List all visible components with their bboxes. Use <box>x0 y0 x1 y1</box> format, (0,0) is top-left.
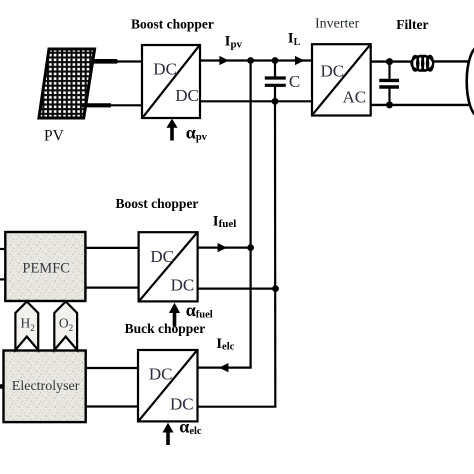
Electrolyser stack <box>4 351 86 423</box>
svg-text:Buck chopper: Buck chopper <box>125 321 206 336</box>
node filter capacitor top junction <box>386 58 393 65</box>
bus B: negative rail drop to electrolyser chopper <box>198 101 277 406</box>
label alpha_elc <box>179 417 202 437</box>
filter capacitor <box>379 62 399 105</box>
svg-text:DC: DC <box>150 247 174 266</box>
svg-text:Boost chopper: Boost chopper <box>116 196 199 211</box>
capacitor C (DC link) <box>265 61 286 102</box>
O2 flow banner <box>54 302 77 351</box>
current arrow I_fuel <box>218 243 227 252</box>
node junction bus A on positive rail <box>247 57 254 64</box>
svg-text:Filter: Filter <box>396 17 428 32</box>
wire PV negative terminal (thick stub) <box>82 103 111 107</box>
node junction fuel negative on bus B <box>272 285 279 292</box>
node junction fuel positive on bus A <box>247 244 254 251</box>
svg-text:DC: DC <box>170 394 194 413</box>
label I_elc <box>216 336 234 353</box>
wire PV positive to boost chopper <box>104 60 142 62</box>
wire PEMFC negative to fuel boost chopper <box>85 287 138 289</box>
H2 flow banner <box>15 302 38 351</box>
svg-text:Inverter: Inverter <box>315 17 360 32</box>
svg-text:DC: DC <box>153 59 177 78</box>
node junction capacitor bottom <box>272 98 279 105</box>
label I_L <box>288 31 301 49</box>
svg-text:Boost chopper: Boost chopper <box>131 16 214 31</box>
wire buck chopper input from arrow <box>198 367 225 369</box>
control arrow alpha_elc <box>162 423 173 445</box>
svg-text:PV: PV <box>44 128 65 145</box>
svg-text:DC: DC <box>149 364 173 383</box>
control arrow alpha_fuel <box>169 303 180 327</box>
label Buck chopper <box>125 321 206 336</box>
wire PV positive terminal (thick stub) <box>92 59 117 64</box>
PEMFC fuel cell stack <box>5 232 85 301</box>
label Filter <box>396 17 428 32</box>
wire PEMFC positive to fuel boost chopper <box>85 247 138 249</box>
filter inductor L <box>411 56 433 71</box>
boost chopper DC/DC converter (PV) <box>142 45 200 118</box>
wire inductor to grid <box>434 60 469 62</box>
wire electrolyser to buck chopper top <box>86 367 138 369</box>
inverter DC/AC converter <box>312 44 371 115</box>
PV array panel <box>39 49 95 118</box>
label I_pv <box>225 34 243 51</box>
buck chopper DC/DC converter (electrolyser) <box>138 350 198 421</box>
wire electrolyser to buck chopper bottom <box>86 405 138 407</box>
wire inverter AC output bottom <box>371 104 470 106</box>
svg-text:DC: DC <box>321 61 345 80</box>
svg-text:AC: AC <box>343 88 367 107</box>
node junction capacitor top <box>272 57 279 64</box>
label Boost chopper (fuel cell stage) <box>116 196 199 211</box>
svg-text:Electrolyser: Electrolyser <box>12 379 80 394</box>
wire DC bus positive (boost output to inverter) <box>200 59 312 61</box>
wire fuel boost output positive to bus A <box>198 247 251 249</box>
svg-text:DC: DC <box>175 86 199 105</box>
wire DC bus negative (boost output to inverter) <box>200 100 312 102</box>
svg-text:PEMFC: PEMFC <box>22 260 70 276</box>
AC grid / machine symbol (partially cropped) <box>467 47 474 117</box>
boost chopper DC/DC converter (fuel cell) <box>139 232 198 301</box>
label alpha_fuel <box>186 300 213 320</box>
label PV <box>44 128 65 145</box>
label I_fuel <box>213 214 237 231</box>
current arrow I_pv <box>219 56 228 65</box>
svg-text:C: C <box>289 72 300 91</box>
bus A: positive rail drop to electrolyser chopper <box>224 61 252 368</box>
wire PV negative to boost chopper <box>100 104 142 106</box>
node filter capacitor bottom junction <box>386 101 393 108</box>
PEMFC left terminal stub bottom <box>0 278 5 280</box>
label Boost chopper (PV stage) <box>131 16 214 31</box>
wire fuel boost output negative to bus B <box>198 288 276 290</box>
current arrow I_L <box>295 56 304 65</box>
current arrow I_elc (into buck chopper) <box>219 363 228 372</box>
electrolyser left terminal stub <box>0 384 4 389</box>
PEMFC left terminal stub top <box>0 248 5 250</box>
control arrow alpha_pv <box>166 119 177 141</box>
label Inverter <box>315 17 360 32</box>
wire inverter AC output top <box>371 60 412 62</box>
label C <box>289 72 300 91</box>
label alpha_pv <box>186 123 208 143</box>
svg-text:DC: DC <box>171 276 195 295</box>
